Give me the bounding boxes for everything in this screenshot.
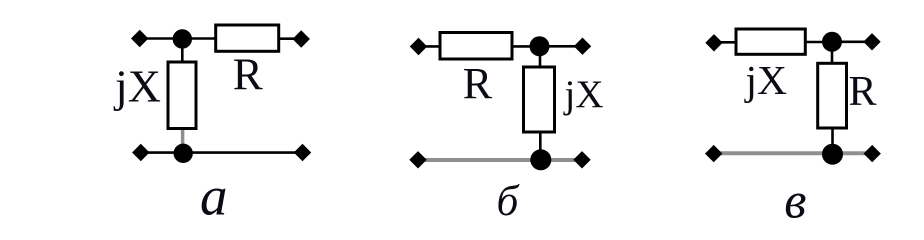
svg-text:jX: jX [563,73,604,116]
svg-text:jX: jX [744,57,788,103]
svg-text:jX: jX [113,61,161,112]
svg-text:R: R [233,50,263,100]
svg-text:R: R [849,69,877,115]
svg-text:а: а [200,166,228,227]
svg-text:в: в [784,173,806,229]
svg-text:R: R [463,59,493,108]
svg-text:б: б [497,177,521,225]
